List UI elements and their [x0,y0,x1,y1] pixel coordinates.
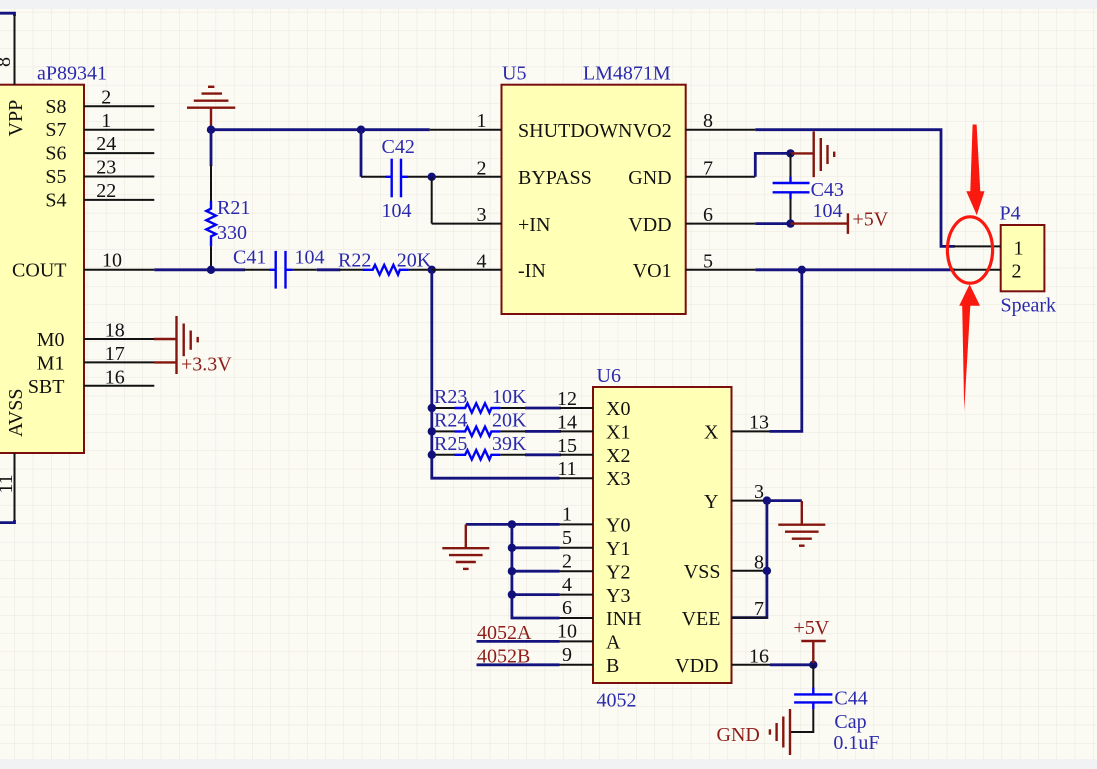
svg-text:104: 104 [813,200,843,222]
svg-text:S8: S8 [45,96,66,118]
svg-text:+5V: +5V [853,209,889,231]
svg-text:Speark: Speark [1001,295,1057,317]
svg-text:7: 7 [703,157,713,179]
pin S4 (22) [84,199,154,201]
junction R25 [428,451,436,459]
U6 pin X3 (11) [559,477,594,479]
svg-text:S5: S5 [45,166,66,188]
svg-text:4052: 4052 [597,690,637,712]
wire R25 to X2 [525,453,561,456]
junction at C42 branch [357,126,365,134]
svg-text:M0: M0 [37,329,65,351]
ground (earth) symbol right of C43 [814,131,835,177]
wire Y1 [512,546,560,549]
svg-text:LM4871M: LM4871M [583,63,671,85]
svg-text:R23: R23 [434,386,467,408]
svg-text:A: A [606,632,621,654]
svg-text:20K: 20K [397,249,432,271]
svg-text:1: 1 [562,504,572,526]
svg-text:aP89341: aP89341 [37,63,107,85]
svg-text:20K: 20K [492,410,527,432]
U5 pin 3 +IN [432,223,502,225]
pin 8 (top side) of aP89341 [14,15,16,85]
ground (earth) symbol at Y [778,501,825,546]
svg-text:16: 16 [105,367,125,389]
svg-text:VSS: VSS [684,561,721,583]
svg-text:2: 2 [477,157,487,179]
svg-text:VEE: VEE [682,608,721,630]
svg-text:23: 23 [96,157,116,179]
svg-text:104: 104 [295,246,325,268]
svg-text:+5V: +5V [794,617,830,639]
U6 pin X1 (14) [560,430,593,432]
svg-text:R24: R24 [434,410,467,432]
resistor R21 330 [206,165,250,270]
svg-text:VO2: VO2 [633,120,672,142]
junction VSS [763,567,771,575]
wire VO1 to speaker [755,268,954,271]
svg-text:Y3: Y3 [606,585,630,607]
svg-text:X0: X0 [606,398,630,420]
wire Y2 [512,570,560,573]
resistor R25 39K [433,433,527,460]
ground (earth) symbol at Y0 [442,524,489,569]
pin S8 (2) [84,105,154,107]
svg-text:P4: P4 [1000,202,1021,224]
red highlight ellipse [947,217,992,283]
svg-text:C44: C44 [834,687,867,709]
svg-text:3: 3 [477,204,487,226]
junction VO1/X [798,266,806,274]
junction Y2 [508,567,516,575]
pin M1 (17) [84,361,154,363]
U6 pin A (10) [559,640,594,642]
svg-text:Y: Y [704,491,718,513]
svg-text:24: 24 [96,133,116,155]
wire R23 to X0 [525,407,561,410]
wire to top pin of aP89341 [0,13,15,16]
P4 pin 1 [954,245,1001,247]
power +5V (bar) at U6 VDD [794,617,830,663]
svg-text:M1: M1 [37,352,65,374]
svg-text:10: 10 [102,250,122,272]
junction Y0 [508,520,516,528]
ground (earth) symbol top [187,87,235,129]
top gray band [0,0,1097,9]
U6 pin Y2 (2) [559,570,594,572]
pin S5 (23) [84,176,154,178]
resistor R23 10K [433,386,527,413]
junction C43 bottom [786,219,794,227]
wire VDD pin6 to +5V [755,222,790,225]
svg-text:5: 5 [562,527,572,549]
pin M0 (18) [84,338,154,340]
svg-text:6: 6 [703,204,713,226]
svg-text:8: 8 [754,551,764,573]
svg-text:13: 13 [749,411,769,433]
junction VDD16 [809,661,817,669]
wire BYPASS node down to +IN [431,177,433,224]
pin COUT (10) [84,269,154,271]
svg-text:16: 16 [749,645,769,667]
power bar symbol at M0/M1 [154,316,232,375]
capacitor C43 104 [773,153,844,223]
pin S6 (24) [84,152,154,154]
svg-text:5: 5 [703,250,713,272]
wire GND pin7 up to ground [755,153,790,176]
junction C43 top [786,149,794,157]
U5 pin 4 -IN [432,269,502,271]
bottom gray band [0,759,1097,769]
junction Y3 [508,590,516,598]
svg-text:X: X [704,422,719,444]
U5 pin 6 VDD [686,223,756,225]
svg-text:9: 9 [562,644,572,666]
resistor R22 20K [338,249,432,274]
wire VO2 to speaker [755,130,954,247]
IC U? aP89341 body (left, partially off-sheet) [0,85,84,453]
junction at ground/pin1 [207,126,215,134]
ground (earth) symbol GND at C44 [717,709,791,755]
svg-text:U6: U6 [597,365,621,387]
U5 pin 5 VO1 [686,269,756,271]
wire Y down to VEE [732,501,767,618]
junction COUT/R21 [207,266,215,274]
svg-text:S6: S6 [45,143,66,165]
svg-text:R25: R25 [434,433,467,455]
svg-text:17: 17 [105,343,125,365]
junction R24 [428,427,436,435]
wire Y to ground [767,499,802,502]
wire COUT to C41 [154,268,245,271]
svg-text:8: 8 [703,110,713,132]
op-amp U5 LM4871M body [502,63,686,314]
svg-text:SHUTDOWN: SHUTDOWN [518,120,632,142]
svg-text:U5: U5 [502,63,526,85]
svg-text:-IN: -IN [518,260,546,282]
wire down to R21 [210,130,213,166]
svg-text:VDD: VDD [628,214,671,236]
svg-text:12: 12 [557,388,577,410]
wire C41 to R22 [317,268,341,271]
connector P4 Speark [1000,202,1057,316]
U5 pin 8 VO2 [686,129,756,131]
svg-text:R21: R21 [217,197,250,219]
svg-text:104: 104 [382,200,412,222]
red arrow top [966,125,984,216]
svg-text:B: B [606,655,619,677]
svg-text:X3: X3 [606,468,630,490]
U6 pin VDD (16) [732,664,771,666]
U6 pin X0 (12) [560,407,593,409]
U6 pin X (13) [732,430,771,432]
svg-text:2: 2 [1012,261,1022,283]
svg-text:C43: C43 [811,179,844,201]
wire from bottom pin 11 [0,520,15,523]
svg-text:+IN: +IN [518,214,550,236]
svg-text:Cap: Cap [834,711,866,733]
P4 pin 2 [954,269,1001,271]
svg-text:COUT: COUT [12,259,66,281]
wire VDD16 to +5V [770,663,813,666]
dark red link to ground [791,152,814,154]
junction Y [763,496,771,504]
multiplexer U6 4052 body [593,365,732,712]
svg-text:15: 15 [557,435,577,457]
svg-text:C42: C42 [382,136,415,158]
U6 pin B (9) [559,664,594,666]
svg-text:2: 2 [101,86,111,108]
svg-text:GND: GND [628,167,671,189]
U6 pin Y (3) [732,500,767,502]
capacitor C41 104 [233,246,325,288]
svg-text:3: 3 [754,481,764,503]
wire Y3 [512,593,560,596]
svg-text:INH: INH [606,608,642,630]
capacitor C44 Cap 0.1uF [790,665,880,754]
svg-text:330: 330 [217,222,247,244]
svg-text:S7: S7 [45,119,66,141]
svg-text:1: 1 [477,110,487,132]
U6 pin Y3 (4) [559,594,594,596]
svg-text:39K: 39K [492,433,527,455]
wire pin1 branch down to C42 [360,130,363,177]
svg-text:1: 1 [1014,237,1024,259]
red arrow bottom [959,284,980,410]
svg-text:BYPASS: BYPASS [518,167,592,189]
svg-text:8: 8 [0,57,15,67]
svg-text:X1: X1 [606,422,630,444]
junction BYPASS node [428,173,436,181]
svg-text:AVSS: AVSS [5,388,27,437]
U5 pin 1 SHUTDOWN [430,129,502,131]
capacitor C42 104 [361,136,432,222]
svg-text:14: 14 [557,411,577,433]
bus down Y1 Y2 Y3 INH [512,524,560,618]
wire B [477,663,560,666]
wire: ground to U5 pin1 row [211,128,430,131]
wire Y0 bus [466,523,560,526]
svg-text:4: 4 [477,250,487,272]
power +5V (bar) at VDD [791,209,889,234]
junction R23 [428,404,436,412]
U6 pin VSS (8) [732,570,767,572]
svg-text:0.1uF: 0.1uF [833,732,879,754]
svg-text:18: 18 [105,320,125,342]
svg-text:10K: 10K [492,386,527,408]
svg-text:4: 4 [562,574,572,596]
pin SBT (16) [84,385,154,387]
svg-text:GND: GND [717,724,760,746]
svg-text:R22: R22 [338,249,371,271]
svg-text:6: 6 [562,597,572,619]
U6 pin INH (6) [559,617,594,619]
svg-text:X2: X2 [606,445,630,467]
svg-text:1: 1 [101,110,111,132]
svg-text:Y2: Y2 [606,561,630,583]
U6 pin Y0 (1) [559,523,594,525]
svg-text:10: 10 [557,621,577,643]
svg-text:2: 2 [562,550,572,572]
svg-text:22: 22 [96,180,116,202]
junction Y1 [508,544,516,552]
svg-text:VDD: VDD [675,655,718,677]
pin 11 (bottom side) of aP89341 [14,453,16,523]
U6 pin Y1 (5) [559,547,594,549]
wire -IN bus down to X3 [432,270,560,478]
resistor R24 20K [433,410,527,437]
svg-text:VO1: VO1 [633,260,672,282]
U5 pin 2 BYPASS [432,176,502,178]
wire X to VO1 node [770,270,802,432]
svg-text:VPP: VPP [5,100,27,137]
svg-text:SBT: SBT [28,376,65,398]
svg-text:7: 7 [754,598,764,620]
svg-text:Y1: Y1 [606,538,630,560]
wire A [477,640,560,643]
svg-text:+3.3V: +3.3V [181,353,232,375]
U5 pin 7 GND [686,176,756,178]
pin S7 (1) [84,129,154,131]
svg-text:11: 11 [557,458,576,480]
junction -IN node [428,266,436,274]
U6 pin VEE (7) [732,617,767,619]
U6 pin X2 (15) [560,454,593,456]
svg-text:C41: C41 [233,246,266,268]
svg-text:S4: S4 [45,189,66,211]
svg-text:11: 11 [0,474,17,493]
wire R24 to X1 [525,430,561,433]
svg-text:Y0: Y0 [606,515,630,537]
